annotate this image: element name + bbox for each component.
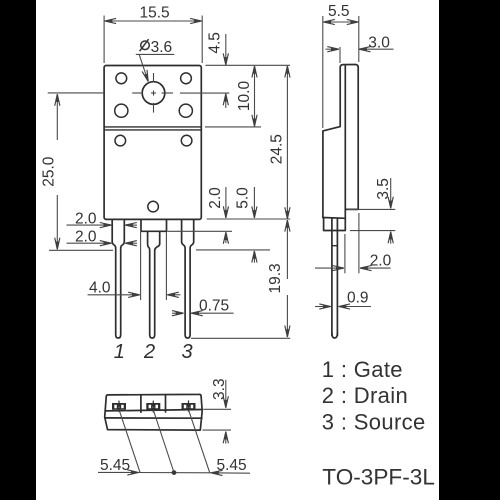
- dim 10.0 line: [254, 66, 256, 96]
- side view tab inner line: [344, 66, 346, 209]
- dim 19.3 line: [286, 220, 288, 279]
- bottom view top-right extension: [203, 408, 231, 410]
- leader pin 3: [189, 410, 210, 473]
- front view package body outline: [104, 66, 201, 220]
- dia 3.6 underline: [136, 53, 174, 55]
- dim 0.9 arrows: [315, 306, 331, 308]
- front view hole bottom-center: [148, 201, 159, 212]
- right black bar: [439, 0, 500, 500]
- svg-text:2 : Drain: 2 : Drain: [322, 383, 408, 408]
- pin function legend: [322, 357, 435, 490]
- pin 3 outline: [182, 219, 194, 338]
- pin 2 outline: [148, 231, 160, 338]
- svg-text:24.5: 24.5: [268, 134, 285, 164]
- symbol 3 center tick: [188, 400, 190, 411]
- hole centerline vertical dashes: [153, 73, 155, 83]
- dim 0.75 arrows: [172, 312, 184, 314]
- dim 5.0 line: [253, 187, 255, 218]
- dim 4.5 line top: [225, 34, 227, 65]
- svg-text:TO-3PF-3L: TO-3PF-3L: [322, 465, 435, 490]
- svg-text:5.0: 5.0: [234, 187, 251, 209]
- pin cross-section symbol 1: [112, 403, 126, 410]
- tab bottom extension right: [168, 230, 233, 232]
- dim 3.0 extension front: [339, 47, 341, 63]
- pin cross-section symbol 3: [182, 403, 196, 410]
- leader pin 1: [119, 411, 140, 473]
- svg-text:2.0: 2.0: [207, 187, 224, 209]
- bottom view divider 1: [140, 395, 142, 413]
- svg-text:3 : Source: 3 : Source: [322, 409, 426, 434]
- svg-text:4.5: 4.5: [207, 32, 224, 54]
- symbol 2 center tick: [152, 401, 154, 413]
- symbol 1 center tick: [118, 401, 120, 412]
- flange line extension right: [205, 126, 261, 128]
- dim 15.5 extension right: [201, 16, 203, 64]
- svg-text:5.45: 5.45: [217, 457, 247, 474]
- side view body outline: [323, 65, 358, 231]
- bottom view outline: [105, 394, 203, 430]
- svg-text:10.0: 10.0: [236, 81, 253, 112]
- bottom view divider 2: [165, 395, 167, 412]
- pin 1 outline: [112, 219, 124, 338]
- dim 5.5 line: [323, 21, 341, 23]
- svg-text:5.45: 5.45: [100, 457, 130, 474]
- side view pin front edge: [331, 218, 333, 335]
- side view pin tip cap: [332, 333, 338, 338]
- dim 2.0 side extensions: [344, 234, 346, 273]
- front view dimension graphics: [48, 16, 291, 339]
- dim 5.5 extension left: [322, 16, 324, 128]
- front view hole lower-left: [115, 135, 126, 146]
- dim 3.5 line: [390, 178, 392, 208]
- front view hole mid-left: [115, 104, 128, 117]
- svg-text:19.3: 19.3: [267, 263, 284, 293]
- dim 3.0 arrows: [326, 48, 339, 50]
- svg-text:2: 2: [143, 341, 155, 363]
- front view hole top-right small: [181, 73, 192, 84]
- dim 3.3 line: [225, 380, 227, 408]
- dia 3.6 leader arrow: [139, 55, 148, 82]
- tab right edge extension down: [165, 232, 167, 300]
- front view hole mid-right: [179, 104, 192, 117]
- svg-text:2.0: 2.0: [75, 210, 97, 227]
- leader junction dot: [172, 470, 177, 475]
- svg-text:0.9: 0.9: [347, 289, 369, 306]
- bottom view section line: [105, 410, 202, 411]
- dim 4.0 line: [88, 294, 140, 296]
- dim 5.5 extension right: [358, 16, 360, 62]
- bottom view: [105, 394, 203, 430]
- side view body bottom edge: [323, 217, 345, 220]
- dim 15.5 extension left: [103, 16, 105, 64]
- taper end extension left: [49, 249, 113, 251]
- side view: [323, 65, 358, 339]
- dim 4.5 line bottom tail: [225, 94, 227, 108]
- label dia 3.6: [140, 39, 150, 51]
- svg-text:4.0: 4.0: [89, 280, 111, 297]
- svg-text:3.5: 3.5: [375, 178, 392, 200]
- front view center mounting hole: [142, 82, 165, 105]
- pin bottom extension right: [191, 337, 290, 339]
- svg-text:2.0: 2.0: [370, 253, 392, 270]
- front view center tab below body: [141, 219, 167, 231]
- svg-text:3.3: 3.3: [211, 378, 228, 400]
- front view hole top-left small: [116, 73, 127, 84]
- svg-text:3.6: 3.6: [151, 39, 173, 56]
- dim 2.0 second arrows: [67, 242, 112, 244]
- svg-text:3.0: 3.0: [368, 34, 390, 51]
- tab left edge extension down: [140, 232, 142, 300]
- dim 25.0 line: [56, 94, 58, 140]
- taper end extension right: [196, 249, 270, 251]
- dim 5.45 line: [98, 471, 139, 473]
- pin cross-section symbol 2: [146, 403, 160, 410]
- dim 2.0 first arrows: [67, 224, 112, 226]
- svg-text:25.0: 25.0: [41, 156, 58, 187]
- dim 2.0 side arrows: [315, 267, 344, 269]
- svg-text:5.5: 5.5: [328, 3, 350, 20]
- svg-text:15.5: 15.5: [140, 5, 170, 22]
- leader pin 2: [153, 410, 174, 473]
- front view hole lower-right: [181, 135, 192, 146]
- svg-text:3: 3: [181, 341, 192, 363]
- svg-text:1 : Gate: 1 : Gate: [322, 357, 403, 382]
- dim 2.0 right line: [225, 187, 227, 218]
- front view flange double line upper: [104, 126, 201, 128]
- dim 24.5 line: [286, 66, 288, 140]
- left black bar: [0, 0, 36, 500]
- bottom view lower line: [105, 417, 202, 419]
- side boss bottom extension right: [350, 230, 395, 232]
- svg-text:1: 1: [114, 341, 125, 363]
- hole centerline horizontal segments: [48, 92, 104, 94]
- side view pin bend tick: [332, 245, 338, 247]
- side tab bottom extension right: [347, 208, 395, 210]
- svg-text:0.75: 0.75: [199, 298, 229, 315]
- package top edge extension right: [206, 64, 291, 66]
- bottom view bottom extension: [203, 429, 232, 431]
- dim 15.5 line: [105, 20, 153, 22]
- package bottom extension right: [207, 218, 291, 220]
- svg-text:2.0: 2.0: [75, 229, 97, 246]
- side view pin back edge: [336, 218, 338, 335]
- front view flange double line lower: [104, 129, 201, 131]
- front view dimension texts: [41, 5, 286, 363]
